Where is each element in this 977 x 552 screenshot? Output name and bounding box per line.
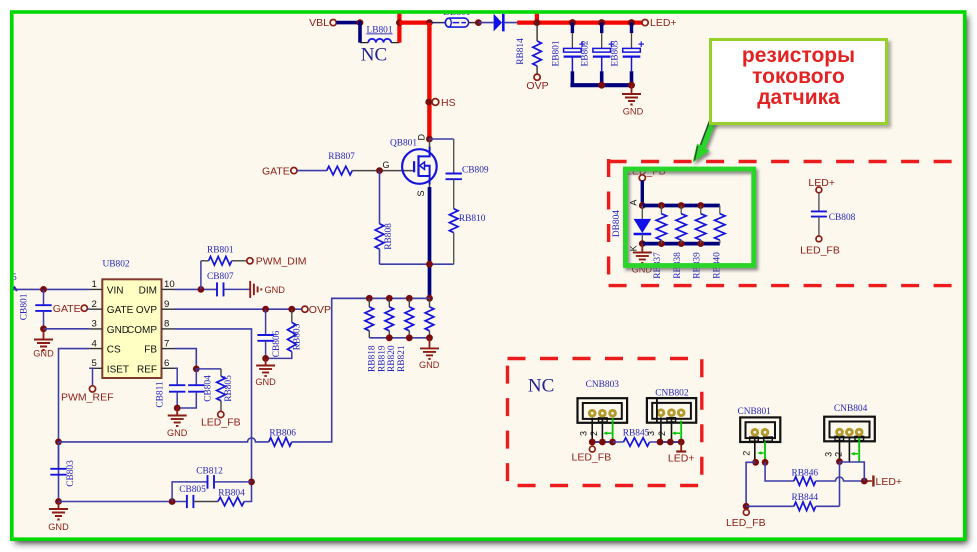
wire CB812 right leg	[214, 481, 252, 483]
label RB821	[397, 345, 407, 372]
wire EB801 to gnd rail	[571, 71, 575, 85]
svg-text:LED+: LED+	[876, 476, 903, 488]
wire RB818 top lead	[368, 298, 370, 307]
svg-text:K: K	[629, 245, 639, 251]
svg-text:RB806: RB806	[269, 428, 296, 438]
port LED+ right	[816, 187, 822, 193]
wire HS vertical	[427, 23, 431, 140]
pin 5 ISET	[89, 358, 129, 375]
junction node CB801	[40, 286, 47, 293]
port LED_FB right	[816, 236, 822, 242]
svg-text:RB803: RB803	[292, 323, 302, 350]
svg-text:5: 5	[91, 358, 96, 369]
label RB807	[328, 152, 355, 162]
resistor RB837	[656, 214, 666, 240]
label RB845	[623, 428, 650, 438]
wire RB839 bottom lead	[700, 240, 702, 244]
label GND EB caps	[623, 107, 644, 117]
label RB837	[653, 252, 663, 279]
wire CB808 top lead	[818, 193, 820, 212]
svg-text:LED_FB: LED_FB	[201, 416, 241, 428]
wire CB805 to RB804	[193, 501, 218, 503]
label G	[382, 160, 389, 170]
label GND CB807	[265, 285, 286, 295]
wire ISET to PWM_REF	[89, 368, 92, 386]
wire RB820 top lead	[408, 298, 410, 307]
svg-text:LED+: LED+	[668, 452, 695, 464]
wire anode lead	[641, 206, 643, 219]
junction node RB838 bottom	[678, 240, 685, 247]
wire CNB802 pin row	[660, 441, 681, 443]
pin 3 GND	[89, 319, 129, 336]
wire sense rail bottom	[369, 337, 429, 339]
dashed box NC	[508, 359, 702, 486]
offpage LED+ connector	[676, 442, 686, 452]
capacitor EB803 polarized	[623, 48, 641, 56]
port GATE upper	[291, 168, 297, 174]
wire RB804 to comp node	[244, 482, 251, 502]
wire RB839 top lead	[700, 206, 702, 214]
pin 8 COMP	[127, 319, 175, 336]
svg-text:PWM_REF: PWM_REF	[61, 391, 114, 403]
wire CNB803 pin row	[592, 441, 612, 443]
capacitor CB805	[187, 495, 194, 508]
wire CNB802 pin3	[660, 417, 662, 442]
wire CNB803 pin1 green	[612, 418, 614, 442]
label partial 5 at border	[12, 273, 17, 283]
resistor RB814	[533, 41, 542, 66]
wire RB808 bottom lead	[379, 249, 381, 264]
wire junction to diode	[478, 22, 493, 24]
svg-text:GND: GND	[33, 349, 54, 359]
label GND CB811	[167, 428, 188, 438]
highlight rectangle over sense resistors	[625, 169, 753, 266]
svg-text:RB804: RB804	[218, 488, 245, 498]
svg-text:CNB804: CNB804	[834, 404, 868, 414]
svg-text:RB819: RB819	[377, 345, 387, 372]
svg-text:DB804: DB804	[612, 210, 622, 237]
svg-text:ISET: ISET	[107, 364, 129, 375]
label NC of connectors	[528, 376, 554, 397]
wire source bus	[428, 187, 432, 298]
wire RB840 top lead	[719, 206, 721, 214]
junction node RB838 top	[678, 202, 685, 209]
svg-text:NC: NC	[361, 45, 387, 66]
junction node DIM	[198, 286, 205, 293]
label LED+ connector	[668, 452, 695, 464]
wire RB814 top lead	[536, 23, 538, 41]
wire EB802 to gnd rail	[600, 71, 604, 85]
svg-text:GND: GND	[265, 285, 286, 295]
label QB801	[390, 139, 417, 149]
svg-text:2: 2	[589, 431, 599, 436]
port VBL	[330, 20, 336, 26]
connector CNB801 pad 2	[761, 428, 770, 437]
svg-text:CB807: CB807	[207, 272, 234, 282]
svg-text:GATE: GATE	[262, 165, 290, 177]
wire sense top rail	[642, 204, 720, 208]
wire pin3 to gnd	[44, 328, 90, 330]
port OVP left	[302, 306, 308, 312]
wire drain to CB809	[429, 138, 453, 140]
label RB805	[224, 375, 234, 402]
junction node CNB803 p3	[589, 439, 596, 446]
port LED_FB bottom	[743, 510, 749, 516]
label CNB803	[586, 380, 620, 390]
svg-text:DIM: DIM	[139, 285, 157, 296]
pin label 2 CNB804	[834, 452, 844, 457]
wire stub at left border	[10, 288, 17, 294]
label EB803	[611, 40, 621, 66]
wire RB846 to LED+ with hop	[816, 477, 865, 481]
junction node gnd OVP	[262, 355, 269, 362]
svg-text:A: A	[629, 200, 639, 206]
svg-text:VBL: VBL	[309, 17, 329, 29]
label RB810	[459, 214, 486, 224]
svg-text:CB803: CB803	[66, 460, 76, 487]
ground CB807 sideways	[250, 281, 261, 298]
wire CS net	[59, 349, 90, 502]
wire DIM up to RB801	[200, 261, 202, 290]
wire RB819 top lead	[388, 298, 390, 307]
connector CNB803 body	[578, 398, 628, 423]
pin1 arrow CNB803	[603, 431, 611, 435]
label EB802	[581, 40, 591, 66]
junction node RB818	[366, 295, 373, 302]
resistor RB810	[449, 209, 458, 233]
wire CB801 bottom lead	[43, 311, 45, 329]
svg-text:CB804: CB804	[204, 375, 214, 402]
junction node RB839 top	[697, 202, 704, 209]
svg-text:10: 10	[164, 279, 175, 290]
offpage LED+ bottom	[867, 476, 873, 487]
wire DIM net	[175, 288, 218, 290]
capacitor EB802 polarized	[593, 48, 611, 56]
junction node EB801	[569, 19, 576, 26]
svg-text:FB: FB	[144, 345, 157, 356]
svg-text:QB801: QB801	[390, 139, 417, 149]
port PWM_DIM	[247, 258, 253, 264]
svg-text:VIN: VIN	[107, 285, 124, 296]
svg-text:GND: GND	[255, 377, 276, 387]
label CNB804	[834, 404, 868, 414]
wire RB807 to gate node	[352, 170, 414, 172]
svg-text:RB805: RB805	[224, 375, 234, 402]
svg-text:CS: CS	[107, 345, 121, 356]
plus sign EB802	[608, 39, 614, 51]
callout box: current sense resistors note	[709, 38, 888, 125]
label LED_FB bottom	[726, 517, 766, 529]
junction node EB803	[628, 19, 635, 26]
wire RB838 bottom lead	[680, 240, 682, 244]
wire RB844 right lead	[816, 505, 840, 507]
wire CB804 bottom lead	[177, 392, 196, 408]
wire EB801 top lead	[571, 23, 574, 33]
svg-text:RB846: RB846	[792, 469, 819, 479]
connector CNB804 pad 3	[855, 428, 864, 437]
wire RB810 bottom lead	[453, 233, 455, 265]
capacitor CB803	[58, 442, 60, 469]
svg-text:EB802: EB802	[581, 40, 591, 66]
junction node CS/RB806	[55, 439, 62, 446]
label CB805	[179, 485, 206, 495]
wire CNB801 to LED_FB	[746, 462, 756, 506]
pin label 2 CNB802	[657, 431, 667, 436]
svg-text:RB821: RB821	[397, 345, 407, 372]
label GND OVP divider	[255, 377, 276, 387]
connector CNB803 pad 1	[588, 409, 597, 418]
wire CB807 to gnd	[224, 288, 251, 290]
wire diode to rail	[505, 22, 518, 24]
wire CNB804 pin row	[840, 462, 865, 481]
pin 10 DIM	[139, 279, 175, 296]
svg-text:S: S	[416, 190, 426, 196]
junction node CB811 gnd	[174, 405, 181, 412]
resistor RB805	[217, 376, 226, 401]
label VBL	[309, 17, 329, 29]
wire RB808 top lead	[379, 171, 381, 224]
connector CNB802 body	[647, 398, 696, 423]
ground CB803	[58, 502, 60, 509]
svg-text:RB801: RB801	[207, 245, 234, 255]
svg-text:CB806: CB806	[272, 330, 282, 357]
pin label 2 CNB803	[589, 431, 599, 436]
label CB807	[207, 272, 234, 282]
junction node RB814	[534, 19, 541, 26]
capacitor CB807	[217, 282, 224, 296]
junction node HS rail	[426, 19, 433, 26]
junction node VBL/LB801	[357, 19, 364, 26]
label RB818	[368, 345, 378, 372]
svg-text:HS: HS	[441, 97, 456, 109]
wire CB806 bottom lead	[265, 341, 267, 359]
label RB808	[384, 223, 394, 250]
wire CB804 top lead	[195, 369, 197, 385]
wire RB821 bottom lead	[429, 331, 431, 338]
wire RB837 top lead	[660, 206, 662, 214]
wire CB806 top lead	[265, 309, 267, 335]
wire RB837 bottom lead	[660, 240, 662, 244]
svg-text:PWM_DIM: PWM_DIM	[256, 256, 307, 268]
junction node drain	[426, 136, 433, 143]
pin label 2 CNB801	[742, 451, 752, 456]
junction node EB802 gnd	[598, 82, 605, 89]
resistor RB808	[375, 224, 384, 249]
label LED+ top	[650, 17, 677, 29]
svg-text:RB818: RB818	[368, 345, 378, 372]
wire RB803 top lead	[291, 309, 293, 322]
pin 1 VIN	[89, 279, 123, 296]
wire OVP net	[175, 308, 303, 310]
wire EB801 bottom lead	[571, 57, 573, 72]
wire GATE to RB807	[297, 170, 327, 172]
label RB801	[207, 245, 234, 255]
junction node RB839 bottom	[697, 240, 704, 247]
svg-text:8: 8	[164, 319, 169, 330]
label GATE upper	[262, 165, 290, 177]
wire CB809 to RB810	[453, 179, 455, 209]
junction node RB837 top	[658, 202, 665, 209]
svg-text:RB820: RB820	[387, 345, 397, 372]
connector CNB802 pad 2	[667, 408, 676, 417]
pin1 arrow CNB802	[672, 431, 680, 435]
wire CB809 top lead	[453, 139, 455, 173]
wire CNB801 pin2	[754, 437, 756, 462]
connector CNB802 pad 3	[677, 408, 686, 417]
wire RB845 left lead	[613, 441, 624, 443]
wire CNB804 pin3	[839, 437, 841, 462]
junction node CNB803 p2	[599, 439, 606, 446]
inductor LB801	[360, 39, 399, 43]
svg-text:CB811: CB811	[156, 381, 166, 408]
svg-text:GND: GND	[623, 107, 644, 117]
dashed highlight box current sense	[609, 159, 966, 287]
junction node CB803	[55, 498, 62, 505]
junction node cathode	[639, 240, 646, 247]
svg-text:LED_FB: LED_FB	[726, 517, 766, 529]
connector CNB804 pad 2	[845, 428, 854, 437]
label LB801	[366, 25, 392, 35]
label RB838	[673, 252, 683, 279]
capacitor CB811	[169, 385, 185, 392]
svg-text:RB810: RB810	[459, 214, 486, 224]
capacitor CB806	[257, 335, 273, 341]
ground sense diode	[641, 244, 643, 252]
resistor RB840	[715, 214, 725, 240]
svg-text:CNB803: CNB803	[586, 380, 620, 390]
connector CNB801 pad 1	[751, 428, 760, 437]
junction node EB803 gnd	[628, 82, 635, 89]
wire top rail segment 1	[399, 21, 429, 25]
resistor RB821	[425, 307, 434, 331]
junction node source rail	[426, 295, 433, 302]
svg-text:NC: NC	[528, 376, 554, 397]
pin 4 CS	[89, 338, 121, 355]
resistor RB846	[794, 477, 816, 486]
resistor RB801	[209, 257, 232, 266]
label CB804	[204, 375, 214, 402]
svg-text:EB803: EB803	[611, 40, 621, 66]
wire CNB803 pin2	[601, 418, 603, 442]
pin 2 GATE	[89, 299, 133, 316]
svg-text:OVP: OVP	[136, 305, 157, 316]
pin label 3 CNB804	[824, 452, 834, 457]
label RB846	[792, 469, 819, 479]
junction node anode	[639, 202, 646, 209]
svg-text:CNB801: CNB801	[738, 407, 772, 417]
wire GATE left to pin2	[87, 308, 89, 311]
svg-text:EB801: EB801	[551, 40, 561, 66]
wire RB838 top lead	[680, 206, 682, 214]
junction node CNB804 p3	[836, 458, 843, 465]
svg-text:9: 9	[164, 299, 169, 310]
pin label S	[416, 190, 426, 196]
svg-text:CB801: CB801	[19, 293, 29, 320]
svg-text:LB801: LB801	[366, 25, 392, 35]
wire rail to fuse	[429, 22, 445, 24]
svg-text:REF: REF	[137, 364, 157, 375]
wire LB801 left leg	[358, 21, 362, 43]
label RB839	[693, 252, 703, 279]
pin1 arrow CNB804	[851, 452, 858, 456]
label LED+ bottom	[876, 476, 903, 488]
svg-text:RB808: RB808	[384, 223, 394, 250]
pin 9 OVP	[136, 299, 175, 316]
label LED_FB sense	[626, 165, 666, 177]
wire RB821 top lead	[429, 298, 431, 307]
resistor RB839	[696, 214, 706, 240]
svg-text:GND: GND	[107, 325, 129, 336]
wire EB803 to gnd rail	[630, 71, 634, 85]
svg-text:+: +	[638, 39, 644, 51]
svg-text:RB814: RB814	[516, 38, 526, 65]
label LED+ right	[808, 177, 835, 189]
wire RB819 bottom lead	[388, 331, 390, 338]
label GATE left	[53, 303, 81, 315]
port LED_FB mid	[218, 411, 224, 417]
resistor RB804	[218, 497, 244, 506]
svg-text:3: 3	[646, 431, 656, 436]
junction node FB	[193, 366, 200, 373]
resistor RB803	[288, 322, 297, 351]
wire RB806 rail	[59, 438, 269, 442]
label CB812	[196, 466, 223, 476]
label OVP left	[309, 304, 331, 316]
wire CB811 bottom lead	[176, 392, 178, 408]
junction node RB819 bottom	[386, 334, 393, 341]
label NC of LB801	[361, 45, 387, 66]
wire EB802 bottom lead	[601, 57, 603, 72]
port GATE left	[81, 305, 87, 311]
svg-text:3: 3	[578, 431, 588, 436]
resistor RB820	[405, 307, 414, 331]
pin 7 FB	[144, 338, 174, 355]
junction node RB821 bottom	[426, 334, 433, 341]
label CNB801	[738, 407, 772, 417]
wire RB844 rail	[746, 505, 794, 507]
wire VIN rail	[12, 288, 89, 290]
wire CNB803 pin3	[591, 418, 593, 442]
junction node RB819	[386, 295, 393, 302]
wire sense rail top	[332, 297, 430, 299]
svg-text:GATE: GATE	[107, 305, 134, 316]
wire COMP net	[175, 329, 252, 482]
wire RB845 right lead	[650, 441, 660, 443]
wire gnd rail of EB caps	[570, 83, 631, 87]
junction node CNB802 p2	[667, 439, 674, 446]
wire RB820 bottom lead	[408, 331, 410, 338]
wire LED_FB to anode	[641, 181, 644, 206]
wire VBL to node	[336, 21, 360, 25]
svg-text:6: 6	[164, 358, 169, 369]
wire RB844 riser with hop	[839, 462, 841, 507]
junction node HS	[425, 99, 432, 106]
label UB802	[103, 260, 130, 270]
label RB840	[712, 252, 722, 279]
wire RB814 to OVP	[536, 66, 538, 74]
ground EB caps	[631, 85, 633, 94]
resistor RB819	[385, 307, 394, 331]
svg-text:OVP: OVP	[309, 304, 331, 316]
label RB814	[516, 38, 526, 65]
wire RB801 to PWM_DIM	[232, 260, 247, 262]
junction node RB820	[406, 295, 413, 302]
pin label 3 CNB803	[578, 431, 588, 436]
ground CB811	[176, 408, 178, 415]
wire CB808 bottom lead	[818, 217, 820, 236]
label RB806	[269, 428, 296, 438]
capacitor CB808	[811, 211, 827, 216]
